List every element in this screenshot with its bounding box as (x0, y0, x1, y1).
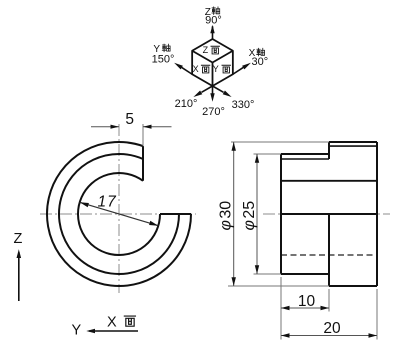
slot horizontal cut edge (160, 213, 191, 215)
svg-text:5: 5 (125, 111, 134, 128)
svg-text:150°: 150° (152, 54, 175, 66)
label Y軸 (153, 44, 170, 55)
step circle phi25 arc (59, 154, 179, 274)
slot/bore intersection edge (281, 180, 377, 182)
svg-text:330°: 330° (232, 99, 255, 111)
label Z軸 (205, 7, 220, 18)
svg-text:270°: 270° (202, 106, 225, 118)
210° arrow (193, 86, 212, 97)
svg-text:20: 20 (323, 320, 341, 337)
dimension line 20 (281, 333, 377, 337)
phi30 top extension line (231, 141, 329, 143)
svg-text:X: X (193, 64, 199, 74)
svg-text:17: 17 (98, 193, 118, 210)
label X面 (107, 314, 135, 330)
svg-text:90°: 90° (205, 15, 222, 27)
outer circle phi30 arc (47, 142, 191, 286)
svg-text:210°: 210° (175, 98, 198, 110)
phi25 top extension line (254, 153, 282, 155)
bottom edge phi30 (329, 285, 377, 287)
cube internal edges (192, 51, 233, 86)
label Y面 on right face (213, 64, 231, 74)
label Z面 on top face (203, 45, 220, 55)
dimension 5 line left (91, 125, 119, 129)
Z axis arrow (90°) (210, 25, 214, 39)
slot cut edge on phi25 (281, 158, 329, 160)
step edge bottom (328, 214, 330, 286)
Y axis arrow (150°) (174, 63, 192, 74)
horizontal centerline (40, 213, 196, 215)
svg-text:10: 10 (298, 293, 316, 310)
Y axis arrow (86, 329, 138, 334)
svg-text:Z: Z (14, 231, 23, 247)
label X面 on left face (193, 64, 210, 74)
step extension line for 10 (328, 289, 330, 312)
slot cut edge on phi30 (329, 145, 377, 147)
270° arrow (210, 86, 214, 102)
phi25 dimension line (255, 154, 259, 274)
left end face (280, 154, 282, 274)
top edge phi30 (329, 141, 377, 143)
Z axis arrow (17, 249, 22, 301)
phi30 dimension line (232, 142, 236, 286)
svg-text:30°: 30° (251, 56, 268, 68)
vertical centerline (118, 124, 120, 293)
svg-text:X: X (107, 314, 117, 330)
dimension 5 extension line (142, 124, 144, 146)
svg-text:Y: Y (213, 64, 219, 74)
left extension line for 10/20 (280, 277, 282, 340)
phi30 bottom extension line (228, 285, 329, 287)
top edge phi25 (281, 153, 329, 155)
svg-text:φ25: φ25 (241, 201, 258, 231)
step edge top (328, 142, 330, 159)
svg-text:φ30: φ30 (218, 201, 235, 231)
bore circle 17 arc (78, 173, 160, 255)
hidden bore line (281, 254, 377, 256)
label X軸 (249, 48, 265, 59)
bottom edge phi25 (281, 273, 329, 275)
X axis arrow (30°) (233, 63, 251, 74)
slot vertical cut edge (142, 146, 144, 181)
right end face (376, 142, 378, 286)
svg-text:Y: Y (72, 323, 82, 339)
dimension 17 leader line (80, 202, 159, 225)
dimension 5 line right (143, 125, 172, 129)
right extension line for 20 (376, 289, 378, 340)
slot bottom face edge on axis (281, 213, 377, 215)
330° arrow (213, 86, 232, 97)
svg-text:Z: Z (203, 45, 209, 55)
dimension line 10 (281, 306, 329, 310)
horizontal centerline stubs (263, 213, 390, 215)
cube hexagon outline (192, 39, 233, 86)
phi25 bottom extension line (254, 273, 282, 275)
